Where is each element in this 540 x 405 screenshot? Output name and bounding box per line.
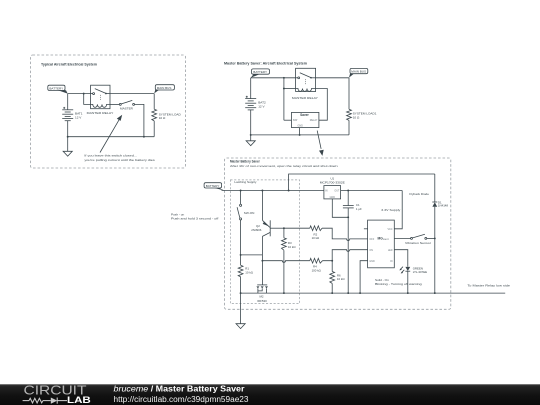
svg-text:2N3906: 2N3906 [251,228,262,232]
svg-text:IRF530: IRF530 [257,299,267,303]
wire load1 bottom [348,120,350,134]
svg-text:GND: GND [298,125,304,128]
resistor R6 10 kOhm [330,272,335,284]
wire branch to relay coil (circuit 2) [284,88,296,90]
wire relay to main bus node [110,93,154,95]
relay MASTER RELAY (circuit 1) [91,85,110,109]
junction LED / bus [407,292,409,294]
wire SW-ON bottom down [240,220,242,255]
wire master switch to bottom bus [135,104,144,136]
junction C1 leg / ground bus [347,292,349,294]
transistor Q2 2N3906 [262,191,270,237]
wire MCU GND to ground bus [360,261,368,293]
junction R6 / ground bus [331,292,333,294]
wire MCU LED pin to LED column [394,250,408,267]
junction coil/saver branch [283,77,285,79]
wire VCC riser to MCU [394,191,402,229]
svg-text:10 kΩ: 10 kΩ [337,277,345,281]
logo wire-resistor-diode glyph [23,398,67,404]
svg-text:IN: IN [325,189,328,192]
diode D1 1N4148 (flyback) [432,202,437,207]
wire branch down to relay coil [84,94,91,105]
frame: Latching Supply sub-box [230,180,299,304]
annotation arrow saver to detail box [317,131,324,156]
relay MASTER RELAY (circuit 2) [296,68,316,91]
wire battery node to relay (circuit 2) [251,77,296,79]
wire LED cathode to bus [407,271,409,293]
resistor SYSTEM LOAD1 10 Ohm [347,109,352,120]
main supply wire to U1 IN [222,190,324,192]
svg-text:MCP1700-3302E: MCP1700-3302E [320,181,345,185]
junction SW-ON [240,190,242,192]
wire battery node to relay [68,93,91,95]
svg-text:12 V: 12 V [258,105,265,109]
wire R1 bottom lead [240,277,242,293]
svg-text:MAIN BUS: MAIN BUS [157,86,172,90]
wire U1 OUT to VCC riser [341,190,403,192]
resistor R3 10 kOhm [282,238,287,250]
svg-text:GND: GND [330,196,336,199]
wire R4 to MCU ON pin (hops gnd leg) [323,250,368,261]
junction R1 / ground stem [240,292,242,294]
wire relay to main bus (circuit 2) [316,77,349,79]
svg-text:LAB: LAB [67,395,91,405]
svg-text:BATTERY: BATTERY [253,70,267,74]
wire D1 anode down to relay bus [434,207,436,293]
svg-text:MASTER: MASTER [120,106,134,110]
svg-text:12 V: 12 V [75,115,82,119]
junction Q2 emitter [261,190,263,192]
wire branch to saver BAT [283,78,285,120]
wire C1 top lead [347,191,349,206]
wire to saver BAT pin [284,119,292,121]
junction base/R2/R3 [283,227,285,229]
svg-text:ESC2: ESC2 [383,239,389,241]
svg-text:MAIN BUS: MAIN BUS [351,70,366,74]
wire riser to top rail [289,174,435,191]
wire R3 bottom lead to ground bus [283,250,285,293]
regulator U1 MCP1700-3302E [324,186,341,199]
junction U1 gnd / C1 leg [347,216,349,218]
node flag BATTERY (detail box) [204,183,224,191]
svg-text:After 1hr of non-movement, ope: After 1hr of non-movement, open the rela… [230,164,338,168]
wire main bus down to load [153,94,155,110]
node flag BATTERY (circuit 2) [251,69,270,78]
svg-text:Push and hold 3 second - off: Push and hold 3 second - off [171,216,219,220]
ground (circuit 1) [63,137,72,157]
node flag MAIN BUS (circuit 2) [349,68,368,77]
svg-text:Flyback Diode: Flyback Diode [409,192,429,196]
junction SW-ON / R1 / collector link [240,254,242,256]
wire load bottom [153,121,155,137]
battery BAT2 12 V [245,96,256,110]
annotation arrow to master switch [100,115,122,153]
junction on top wire (coil branch) [83,93,85,95]
switch MASTER [119,100,134,105]
svg-text:3.3V Supply: 3.3V Supply [381,208,401,212]
svg-text:RELAY: RELAY [310,119,318,122]
svg-text:LTL-307EE: LTL-307EE [413,270,427,274]
svg-text:bruceme / Master Battery Saver: bruceme / Master Battery Saver [114,384,245,393]
wire relay to master switch [110,103,119,105]
switch Vibration Sensor [411,234,427,239]
wire MCU to vibration sensor [394,237,410,239]
svg-text:10 Ω: 10 Ω [159,116,166,120]
svg-text:BATTERY: BATTERY [49,86,63,90]
svg-text:Master Battery Saver: Aircraft: Master Battery Saver: Aircraft Electrica… [224,61,307,65]
bottom return wire (circuit 2) [251,134,349,136]
junction D1 / bus [434,292,436,294]
wire battery top lead (circuit 2) [250,78,252,99]
svg-text:ON: ON [369,249,373,252]
svg-text:100 kΩ: 100 kΩ [312,268,322,272]
battery BAT1 12 V [62,107,73,121]
wire R6 bottom lead [331,283,333,293]
wire saver GND down [299,128,301,135]
svg-text:10 kΩ: 10 kΩ [245,271,253,275]
wire R1 top lead [240,255,242,265]
wire relay coil to saver RELAY pin [316,89,328,121]
microcontroller MG [368,220,395,268]
svg-text:10 kΩ: 10 kΩ [288,245,296,249]
pushbutton switch SW-ON [237,204,242,220]
svg-text:MASTER RELAY: MASTER RELAY [292,96,318,100]
junction battery / ground (circuit 2) [250,134,252,136]
resistor SYSTEM LOAD 10 Ohm [152,109,157,121]
wire sensor to flyback column [427,237,435,239]
svg-text:VCC: VCC [387,228,392,231]
LED D GREEN LTL-307EE [399,267,410,274]
wire battery bottom lead (circuit 2) [250,110,252,135]
subcircuit box Saver [292,112,319,127]
schematic frame: Typical Aircraft Electrical System box [31,55,186,168]
wire R3 top lead [283,228,285,238]
svg-text:SW-ON: SW-ON [244,211,255,215]
resistor R2 10 kOhm [310,226,322,231]
svg-text:http://circuitlab.com/c39dpmn5: http://circuitlab.com/c39dpmn59ae23 [114,395,250,404]
stub unconnected MCU pin [364,228,368,230]
svg-text:10 kΩ: 10 kΩ [312,236,320,240]
svg-text:1 µF: 1 µF [356,207,362,211]
svg-text:10 Ω: 10 Ω [353,115,360,119]
wire C1 bottom leg to ground bus [347,208,349,293]
ground (detail box) [236,293,245,329]
junction MCU gnd / ground bus [359,292,361,294]
svg-text:Vibration Sensor: Vibration Sensor [405,241,431,245]
wire battery top lead [67,94,69,110]
node flag MAIN BUS (circuit 1) [154,85,174,94]
wire R6 top lead [331,261,333,272]
svg-text:MASTER RELAY: MASTER RELAY [87,111,114,115]
junction saver gnd / bottom wire [299,134,301,136]
svg-text:M2: M2 [259,294,263,298]
svg-text:LED: LED [388,249,393,252]
svg-text:Blinking - Turning off warning: Blinking - Turning off warning [375,282,422,286]
svg-text:To Master Relay low side: To Master Relay low side [467,283,510,287]
svg-text:Saver: Saver [300,113,309,117]
junction battery / ground [67,136,69,138]
MOSFET M2 IRF530 [256,236,268,293]
wire main bus down to load1 [348,78,350,110]
wire to SW-ON top [240,191,242,205]
svg-text:BAT: BAT [293,119,298,122]
junction collector / R4 row [261,260,263,262]
junction sensor / flyback column [434,237,436,239]
wire U1 GND leg [332,199,348,217]
wire Q2 base to junction [270,227,284,229]
bottom return wire (circuit 1) [68,136,155,138]
junction R4 / R6 / ON wire [331,260,333,262]
wire R2 to MCU OFF pin (hops gnd leg) [322,228,368,240]
wire top rail down to D1 [434,174,436,202]
wire to Q2 collector column [241,254,263,256]
junction master branch / bottom wire [143,136,145,138]
svg-text:If you leave this switch close: If you leave this switch closed... [84,154,137,158]
svg-text:BATTERY: BATTERY [206,184,220,188]
resistor R1 10 kOhm [238,265,243,277]
wire base junction to R2 [284,227,310,229]
schematic frame: Master Battery Saver detail box [225,158,451,309]
junction R3 / bus [283,292,285,294]
wire battery bottom lead [67,121,69,137]
svg-text:Latching Supply: Latching Supply [234,180,256,184]
svg-text:IN: IN [390,260,393,263]
svg-text:1N4148: 1N4148 [438,204,449,208]
wire collector to R4 (hops R3 leg) [262,261,309,263]
svg-text:OUT: OUT [334,189,340,192]
svg-text:GND: GND [369,260,375,263]
ground bus / relay output wire [241,292,506,294]
svg-text:you're pulling current until t: you're pulling current until the battery… [84,158,155,162]
junction OUT / C1 [347,190,349,192]
node flag BATTERY (circuit 1) [48,85,68,93]
resistor R4 100 kOhm [310,258,323,263]
svg-text:Typical Aircraft Electrical Sy: Typical Aircraft Electrical System [41,62,97,66]
ground (circuit 2) [246,135,255,146]
junction top-rail riser [288,190,290,192]
junction coil branch (circuit 2) [283,88,285,90]
svg-text:OFF: OFF [369,238,374,241]
footer bar [0,384,540,405]
capacitor C1 1 uF [343,206,354,208]
